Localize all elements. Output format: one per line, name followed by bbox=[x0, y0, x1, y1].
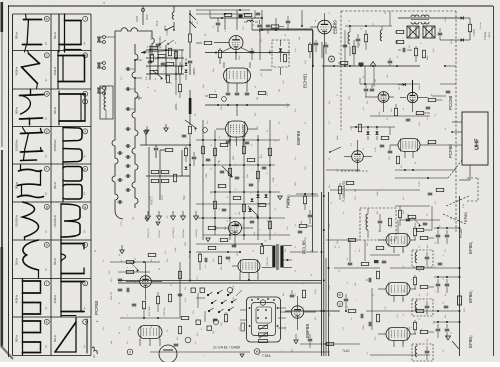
resistor R2 bbox=[158, 54, 166, 57]
resistor R17 bbox=[209, 94, 217, 97]
ground row triangle 4 bbox=[181, 216, 186, 220]
resistor R72 bbox=[271, 25, 279, 28]
resistor R48 bbox=[126, 260, 134, 263]
svg-text:PCF80: PCF80 bbox=[286, 197, 290, 208]
svg-text:7-04/81/3A/72: 7-04/81/3A/72 bbox=[342, 181, 346, 202]
capacitor C1 bbox=[156, 43, 161, 45]
ground G2 bbox=[164, 128, 169, 132]
svg-text:50Hz: 50Hz bbox=[15, 181, 19, 189]
circled letter mid2 bbox=[203, 128, 208, 133]
resistor R13 bbox=[224, 13, 232, 16]
wire x11 bbox=[300, 343, 360, 345]
capacitor C17 bbox=[370, 88, 375, 90]
wire v8 bbox=[202, 120, 204, 240]
junctions3 bbox=[261, 17, 263, 19]
bus line B bbox=[321, 192, 323, 356]
resistor R32 bbox=[346, 181, 354, 184]
IF wire h2 bbox=[434, 276, 460, 278]
capacitor PM2 bbox=[192, 156, 197, 158]
circled letter s1 bbox=[337, 292, 343, 298]
svg-text:50Hz: 50Hz bbox=[15, 31, 19, 39]
resistor R39 bbox=[228, 168, 231, 176]
wire v cluster2 bbox=[175, 80, 177, 95]
wire v7 bbox=[367, 127, 369, 130]
waveform scope trace row9 left bbox=[15, 317, 49, 355]
svg-text:M: M bbox=[285, 34, 287, 36]
resistor R60 bbox=[260, 246, 263, 254]
pot arrow 6 bbox=[412, 217, 420, 225]
junctions2 bbox=[227, 104, 229, 106]
resistor R1 bbox=[150, 46, 158, 49]
resistor R4 bbox=[174, 51, 177, 59]
resistor R22 bbox=[468, 24, 471, 32]
svg-text:2M: 2M bbox=[279, 89, 281, 92]
wire h29 bbox=[334, 267, 380, 269]
IF junction 2 bbox=[437, 276, 439, 278]
svg-text:V=: V= bbox=[84, 154, 87, 158]
tube V2b heptode oval bbox=[226, 121, 248, 137]
coil small L4 bbox=[247, 20, 253, 22]
svg-text:PCC88: PCC88 bbox=[448, 95, 453, 110]
svg-text:2.2kW: 2.2kW bbox=[473, 28, 476, 36]
wire h14 bbox=[326, 169, 360, 171]
tube V5 bbox=[407, 92, 417, 102]
wire h15 bbox=[196, 139, 280, 141]
wire h17 bbox=[210, 191, 280, 193]
wire h27 bbox=[290, 251, 318, 253]
waveform scope trace row3 right bbox=[53, 91, 87, 125]
diode D1 bbox=[279, 48, 282, 51]
junction t52 bbox=[215, 52, 217, 54]
svg-text:1M: 1M bbox=[375, 79, 377, 82]
tube V2 heptode bbox=[224, 68, 251, 83]
bus resistor R70 bbox=[458, 296, 462, 305]
capacitor C7 bbox=[226, 92, 231, 94]
svg-text:d: d bbox=[443, 255, 445, 256]
svg-text:e: e bbox=[46, 129, 48, 133]
resistor R6 bbox=[166, 75, 169, 83]
IF cap a3 bbox=[436, 328, 441, 330]
tube V2b pins bbox=[229, 137, 231, 146]
circled letter mid1 bbox=[222, 97, 227, 102]
capacitor C2b2 bbox=[245, 141, 250, 143]
tube V13 bbox=[291, 306, 303, 318]
svg-text:V=: V= bbox=[45, 267, 48, 271]
capacitor C3 bbox=[154, 147, 159, 149]
wire diag switch bbox=[330, 147, 341, 152]
capacitor X6 bbox=[428, 192, 433, 194]
switch contacts tl bbox=[159, 43, 161, 45]
svg-text:50Hz: 50Hz bbox=[53, 181, 57, 189]
wire h24 bbox=[196, 243, 262, 245]
bus line D bbox=[325, 258, 327, 356]
svg-text:v: v bbox=[411, 255, 413, 256]
junction mid bbox=[202, 139, 204, 141]
svg-text:400Hz: 400Hz bbox=[15, 66, 19, 75]
wire h18 bbox=[196, 217, 285, 219]
svg-text:1M: 1M bbox=[305, 237, 307, 240]
svg-text:5%: 5% bbox=[261, 39, 263, 42]
tuner lower shield box bbox=[100, 86, 113, 119]
svg-text:50Hz: 50Hz bbox=[53, 257, 57, 265]
svg-text:o: o bbox=[84, 129, 86, 133]
switch terminal sq1 bbox=[191, 288, 196, 293]
antenna terminal pair 2 bbox=[97, 62, 105, 70]
wire v12 bbox=[257, 135, 259, 240]
svg-text:4n: 4n bbox=[211, 144, 213, 146]
scan edge artifact left bottom bbox=[1, 247, 4, 347]
capacitor C33 bbox=[174, 343, 179, 345]
IF trim cap 3 bbox=[425, 350, 430, 352]
capacitor C6 bbox=[250, 50, 255, 52]
resistor R49 bbox=[126, 270, 134, 273]
tuner shield top box bbox=[115, 28, 154, 44]
svg-text:2 brown: 2 brown bbox=[479, 21, 482, 30]
wire h9 bbox=[398, 17, 460, 19]
capacitor C8 bbox=[235, 92, 240, 94]
svg-text:50Hz: 50Hz bbox=[53, 31, 57, 39]
wire x8 bbox=[330, 189, 420, 191]
resistor R57 bbox=[198, 254, 201, 262]
resistor R41 bbox=[256, 171, 259, 179]
svg-text:EF80: EF80 bbox=[468, 243, 473, 254]
waveform scope trace row6 right bbox=[53, 204, 87, 240]
waveform scope trace row4 right bbox=[53, 128, 87, 165]
capacitor C37 bbox=[232, 244, 237, 246]
junctions cluster1 bbox=[149, 49, 151, 51]
capacitor C24 bbox=[249, 183, 254, 185]
tube V6 PCF80 bbox=[398, 139, 420, 152]
diode PM3 bbox=[185, 167, 188, 170]
rotary switch contacts bbox=[207, 290, 237, 313]
dashed module 2 bbox=[360, 208, 396, 240]
wire h12 bbox=[395, 169, 456, 171]
capacitor C42 bbox=[348, 262, 353, 264]
svg-text:n: n bbox=[303, 307, 305, 308]
wire h5 bbox=[140, 144, 190, 146]
dashed IF module left bbox=[340, 11, 342, 130]
capacitor X11 bbox=[308, 338, 313, 340]
resistor R50 bbox=[148, 253, 156, 256]
resistor R47 bbox=[208, 226, 216, 229]
tuner inner coil taps bbox=[134, 59, 142, 98]
extra res tl2 bbox=[168, 48, 171, 56]
right mid wire bbox=[395, 205, 430, 207]
svg-text:V=: V= bbox=[84, 78, 87, 82]
wire top h52 bbox=[205, 52, 290, 54]
svg-text:TV/FM: TV/FM bbox=[167, 29, 169, 36]
capacitor C21 bbox=[206, 158, 211, 160]
module2 cap bbox=[378, 220, 383, 222]
resistor R63 bbox=[302, 290, 305, 298]
resistor R55 bbox=[181, 316, 189, 319]
bus line C bbox=[328, 192, 330, 356]
svg-text:d: d bbox=[259, 157, 261, 158]
resistor R36 bbox=[242, 146, 245, 154]
svg-text:IV/K: IV/K bbox=[164, 25, 167, 30]
svg-text:s: s bbox=[267, 197, 269, 198]
UHF input wire 1 bbox=[452, 121, 462, 123]
svg-text:V=: V= bbox=[45, 154, 48, 158]
svg-text:7x1Ω: 7x1Ω bbox=[342, 349, 350, 353]
svg-text:V=: V= bbox=[84, 41, 87, 45]
svg-text:u: u bbox=[84, 100, 86, 104]
tuner stub cap a3 bbox=[126, 107, 128, 111]
IF coil dashed box 1 bbox=[412, 250, 433, 267]
tuner stub cap a7 bbox=[126, 164, 128, 168]
thermistor blob bbox=[359, 63, 364, 67]
svg-text:V=: V= bbox=[45, 229, 48, 233]
svg-text:T 52A: T 52A bbox=[262, 354, 271, 358]
resistor R51 bbox=[142, 301, 145, 309]
section boundary hline bbox=[260, 28, 313, 30]
diode D5 bbox=[375, 131, 378, 134]
IF coil 2 bbox=[415, 301, 417, 312]
tuner stub cap a5 bbox=[126, 144, 128, 148]
waveform scope trace row2 left bbox=[15, 51, 49, 89]
wire h30 bbox=[370, 254, 400, 256]
wire v13 bbox=[269, 120, 271, 240]
waveform scope trace row2 right bbox=[53, 51, 87, 89]
circled letter row b1 bbox=[213, 319, 218, 324]
capacitor C26 bbox=[222, 208, 227, 210]
svg-text:s: s bbox=[281, 349, 283, 350]
UHF input wire 2 bbox=[452, 131, 462, 133]
svg-text:W: W bbox=[95, 250, 97, 252]
tuning shaft arrow bbox=[141, 50, 176, 53]
waveform label circle g bbox=[44, 204, 49, 209]
tube V8 pins bbox=[234, 235, 236, 247]
capacitor C39 bbox=[290, 294, 295, 296]
svg-text:218V(1a): 218V(1a) bbox=[183, 229, 185, 238]
junction6 bbox=[355, 126, 357, 128]
wire v10 bbox=[229, 135, 231, 240]
value labels texture bbox=[109, 29, 465, 344]
svg-text:400Hz: 400Hz bbox=[15, 294, 19, 303]
capacitor C10 bbox=[266, 24, 271, 26]
wire x14 bbox=[254, 10, 256, 18]
svg-text:OA70: OA70 bbox=[444, 16, 447, 22]
diode D8 bbox=[248, 208, 251, 211]
svg-text:g: g bbox=[46, 205, 48, 209]
resistor R46 bbox=[268, 221, 271, 229]
svg-text:400Hz: 400Hz bbox=[53, 66, 57, 75]
resistor R58 bbox=[208, 246, 216, 249]
capacitor C30 bbox=[118, 288, 123, 290]
svg-text:PCF80: PCF80 bbox=[448, 144, 453, 158]
resistor R56 bbox=[178, 271, 181, 279]
svg-text:V=: V= bbox=[84, 191, 87, 195]
resistor chain r2 bbox=[178, 84, 181, 92]
IF junction 3 bbox=[437, 321, 439, 323]
svg-text:ECH81: ECH81 bbox=[303, 73, 308, 88]
ground G8 bbox=[446, 336, 451, 340]
extra cap tl1 bbox=[161, 62, 166, 64]
svg-text:m: m bbox=[84, 53, 87, 57]
waveform scope trace row9 right bbox=[53, 318, 87, 353]
tube V12 oval bbox=[238, 260, 260, 273]
junction bl bbox=[143, 317, 145, 319]
wire v5 bbox=[321, 42, 323, 58]
svg-text:k: k bbox=[251, 169, 253, 170]
tube V9 pins bbox=[145, 287, 147, 300]
wire rm2 bbox=[440, 83, 456, 85]
svg-text:50Hz: 50Hz bbox=[15, 257, 19, 265]
resistor R12 bbox=[173, 174, 176, 182]
resistor R30 bbox=[381, 136, 389, 139]
tube V16_1 pins bbox=[378, 239, 386, 241]
waveform scope trace row5 left bbox=[15, 165, 49, 198]
svg-text:4,5V: 4,5V bbox=[419, 181, 421, 186]
IF wire h3 bbox=[434, 321, 460, 323]
svg-text:125V: 125V bbox=[162, 194, 164, 200]
resistor X7 bbox=[416, 266, 424, 269]
svg-text:B1-3: B1-3 bbox=[156, 20, 159, 26]
resistor chain r1 bbox=[178, 66, 181, 74]
resistor R40 bbox=[218, 184, 226, 187]
resistor R25 bbox=[394, 108, 397, 116]
dashed h mid bbox=[341, 170, 368, 172]
capacitor C43 bbox=[368, 278, 370, 283]
wire h1 bbox=[146, 49, 184, 51]
mains wire bbox=[189, 10, 191, 34]
wire v cluster1 bbox=[149, 45, 151, 80]
IF module res R71 bbox=[364, 34, 367, 42]
tube V13 pins bbox=[297, 318, 299, 330]
resistor PR1 bbox=[303, 196, 306, 204]
circled letter s2 bbox=[337, 301, 343, 307]
chassis bus line 1 bbox=[118, 280, 322, 282]
svg-text:B III: B III bbox=[138, 95, 141, 100]
wire h extra mid bbox=[196, 203, 270, 205]
tuner ground t3 bbox=[156, 222, 160, 225]
waveform scope trace row6 left bbox=[15, 202, 49, 240]
resistor R69 bbox=[376, 246, 384, 249]
right mid cluster res bbox=[398, 210, 401, 218]
svg-text:2W: 2W bbox=[133, 217, 135, 220]
IF resistor b1 bbox=[420, 236, 428, 239]
resistor X9 bbox=[416, 309, 424, 312]
capacitor C25 bbox=[262, 166, 267, 168]
svg-text:TA/M: TA/M bbox=[146, 14, 149, 20]
IF coil dashed box 3 bbox=[412, 344, 433, 361]
tuner stub cap a1 bbox=[126, 67, 128, 71]
svg-text:C34 50u: C34 50u bbox=[164, 307, 166, 316]
capacitor C47 bbox=[257, 24, 262, 26]
wire x10 bbox=[366, 310, 460, 312]
wire x4 bbox=[364, 66, 366, 84]
wire x2 bbox=[301, 10, 303, 26]
svg-text:q: q bbox=[243, 201, 245, 202]
resistor PR3 bbox=[299, 224, 307, 227]
svg-text:osc: osc bbox=[195, 129, 197, 132]
scan edge artifact left middle bbox=[1, 32, 3, 147]
wire bottom edge 2 bbox=[370, 354, 430, 356]
ground row triangle 5 bbox=[194, 216, 199, 220]
waveform label circle m bbox=[83, 53, 88, 58]
waveform scope trace row8 right bbox=[53, 279, 87, 317]
waveform label circle n bbox=[83, 91, 88, 96]
waveform scope trace row7 right bbox=[53, 240, 87, 278]
wire x16 bbox=[353, 40, 355, 66]
capacitor C12 bbox=[324, 44, 329, 46]
wire v9 bbox=[214, 130, 216, 235]
ground G1 bbox=[144, 131, 149, 135]
svg-text:50Hz: 50Hz bbox=[53, 334, 57, 342]
svg-text:1M: 1M bbox=[151, 259, 153, 262]
capacitor C16 bbox=[364, 88, 369, 90]
section boundary vline bbox=[312, 29, 314, 252]
capacitor C40 bbox=[344, 298, 349, 300]
bus line E right bbox=[459, 196, 461, 356]
svg-text:u: u bbox=[211, 217, 213, 218]
picture tube socket diagram bbox=[241, 297, 281, 343]
IF coil 1 bbox=[415, 252, 417, 263]
capacitor C44 bbox=[368, 322, 370, 327]
circled letter t1 bbox=[127, 349, 133, 355]
waveform label circle t bbox=[83, 319, 88, 324]
wire h26 bbox=[285, 310, 340, 312]
resistor R43 bbox=[233, 196, 241, 199]
wire x7 bbox=[428, 144, 462, 146]
ground G3 bbox=[206, 238, 211, 242]
resistor R53 bbox=[168, 294, 171, 302]
grid stopper R15 bbox=[204, 41, 212, 44]
diode D7 bbox=[264, 194, 267, 197]
capacitor C28 bbox=[235, 223, 240, 225]
svg-text:240 6,3V~: 240 6,3V~ bbox=[267, 255, 269, 266]
tube V12 pins bbox=[239, 273, 241, 281]
svg-text:PCF80: PCF80 bbox=[94, 300, 99, 315]
tuner stub cap a12 bbox=[118, 178, 120, 182]
wire PR bbox=[296, 193, 318, 195]
page border left bbox=[8, 5, 10, 357]
resistor R11 bbox=[161, 179, 169, 182]
wire rm1 bbox=[445, 65, 456, 67]
capacitor C27 bbox=[250, 220, 255, 222]
value labels texture 2 bbox=[95, 10, 453, 344]
extra res tl1 bbox=[150, 54, 153, 62]
wire x9 bbox=[390, 267, 460, 269]
tuner ground t1 bbox=[145, 130, 149, 133]
wire h20 bbox=[110, 261, 160, 263]
tuner left column bbox=[112, 44, 123, 219]
IF junction 1 bbox=[437, 227, 439, 229]
wire mains mid bbox=[189, 142, 191, 172]
svg-text:g: g bbox=[147, 87, 149, 88]
resistor R67 bbox=[376, 271, 379, 279]
fuse F1 bbox=[188, 34, 191, 42]
svg-text:V=: V= bbox=[45, 116, 48, 120]
resistor R66 bbox=[361, 262, 369, 265]
capacitor X4 bbox=[406, 118, 411, 120]
resistor R23 bbox=[414, 48, 417, 56]
wire v15 bbox=[349, 240, 351, 258]
resistor R3 bbox=[166, 62, 174, 65]
antenna terminal pair 1 bbox=[97, 36, 115, 44]
waveform label circle q bbox=[83, 204, 88, 209]
IF cap a2 bbox=[436, 283, 441, 285]
wire h bus2 bbox=[205, 104, 290, 106]
capacitor X2 bbox=[343, 44, 348, 46]
svg-text:f: f bbox=[46, 167, 47, 171]
ground G4 bbox=[278, 196, 283, 200]
scan edge artifact left mid2 bbox=[1, 150, 3, 247]
resistor R64 bbox=[348, 309, 356, 312]
tuner stub cap a6 bbox=[126, 155, 128, 159]
resistor R8 bbox=[151, 170, 159, 173]
svg-text:EF80: EF80 bbox=[468, 337, 473, 348]
